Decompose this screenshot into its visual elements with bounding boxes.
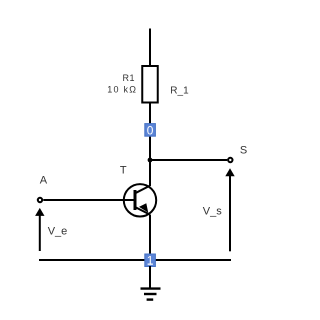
wire: bottom rail — [39, 259, 231, 261]
transistor T circle — [124, 184, 156, 216]
transistor emitter arrow — [139, 203, 148, 212]
transistor base bar — [134, 190, 137, 210]
svg-text:T: T — [120, 165, 127, 177]
wire: ground stem — [149, 266, 151, 289]
svg-text:V_e: V_e — [48, 226, 68, 238]
arrow V_e — [39, 215, 41, 252]
resistor R1 — [142, 66, 158, 103]
svg-text:0: 0 — [147, 123, 154, 137]
svg-text:S: S — [240, 144, 247, 156]
svg-text:10 kΩ: 10 kΩ — [107, 84, 137, 94]
wire: R1 to collector node — [149, 103, 151, 187]
terminal S — [228, 158, 232, 162]
node 1 badge — [145, 254, 156, 267]
svg-text:R_1: R_1 — [170, 86, 189, 97]
transistor emitter diagonal — [135, 207, 150, 215]
transistor collector diagonal — [135, 186, 150, 194]
arrow V_s — [229, 175, 231, 251]
terminal A — [38, 198, 42, 202]
wire: node to S terminal — [150, 159, 227, 161]
svg-text:A: A — [40, 175, 48, 187]
svg-text:V_s: V_s — [203, 205, 222, 217]
svg-text:R1: R1 — [123, 73, 135, 83]
junction dot — [148, 158, 153, 163]
wire: supply lead into R1 — [149, 29, 151, 67]
ground — [141, 289, 161, 300]
node 0 badge — [145, 124, 156, 137]
svg-text:1: 1 — [147, 254, 154, 268]
wire: A to base — [43, 199, 134, 201]
wire: emitter to ground rail — [149, 215, 151, 260]
